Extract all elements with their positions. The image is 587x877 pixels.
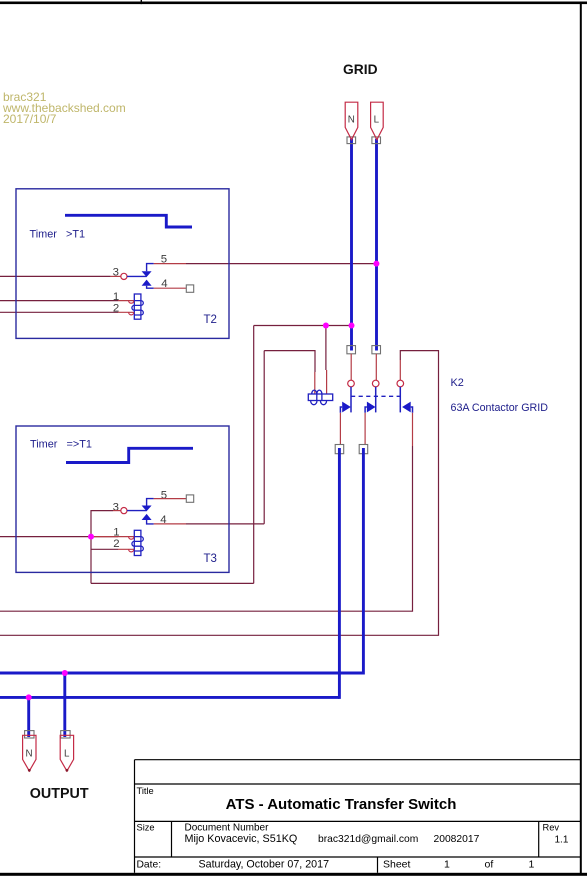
bus pole1 vertical: [338, 448, 341, 699]
T2 coil: [132, 294, 143, 319]
timer T3 box: [16, 426, 229, 572]
net vertical x264.2: [263, 351, 265, 524]
T3 pin2 stub: [118, 548, 134, 550]
net T2 pin2 from left edge: [0, 311, 118, 313]
net T3 pins 1-2 from left edge: [0, 536, 118, 538]
net T2 pin5 to GRID L: [186, 263, 376, 265]
T2 pin2 stub: [118, 311, 134, 313]
connector OUTPUT N tip dot: [28, 769, 31, 772]
connector OUTPUT N: [23, 735, 36, 771]
junction dot output N: [26, 694, 32, 700]
net T3 pin4 horizontal: [186, 523, 264, 525]
svg-text:N: N: [26, 748, 33, 759]
T2 waveform: [65, 215, 192, 227]
svg-text:1: 1: [113, 291, 119, 303]
T3 contact upper triangle: [142, 506, 152, 512]
svg-text:Size: Size: [137, 823, 155, 833]
bus pole2 vertical: [362, 448, 365, 675]
svg-text:Sheet: Sheet: [383, 858, 411, 870]
K2 pole1 pivot circle: [348, 380, 355, 387]
wire GRID N bus: [350, 139, 353, 351]
K2 pole2 bar: [375, 387, 377, 413]
svg-text:2: 2: [113, 538, 119, 550]
svg-text:1: 1: [444, 858, 450, 870]
net vertical x253.7: [253, 326, 255, 584]
T3 contact common circle: [121, 508, 127, 514]
T2 contact upper triangle: [142, 271, 152, 277]
svg-text:5: 5: [161, 489, 167, 501]
T3 contact common line: [127, 510, 147, 512]
T3 contact lower triangle: [142, 514, 152, 520]
K2 pole3 pivot circle: [397, 380, 404, 387]
T3 coil ring 1: [129, 537, 134, 540]
T3 pin5 terminal square: [186, 495, 193, 502]
svg-text:L: L: [374, 115, 380, 126]
connector GRID N pin square: [347, 137, 356, 144]
net T2 pin1 from left edge: [0, 300, 118, 302]
connector OUTPUT L tip dot: [66, 769, 69, 772]
bus output N horizontal: [0, 696, 339, 699]
connector GRID L: [371, 102, 384, 140]
T2 pin5 stub: [154, 263, 186, 265]
K2 pole1 top stub: [350, 354, 352, 380]
bus output L drop: [63, 673, 66, 737]
svg-text:63A Contactor GRID: 63A Contactor GRID: [451, 402, 549, 414]
title block outline: [135, 760, 581, 873]
junction dot T3 coil feed: [88, 534, 94, 540]
T2 contact lower arm: [147, 286, 154, 289]
svg-text:Saturday, October 07, 2017: Saturday, October 07, 2017: [199, 858, 330, 870]
svg-text:OUTPUT: OUTPUT: [30, 786, 89, 802]
net pole3 top loop: [0, 351, 439, 636]
net N bus tap horizontal: [254, 325, 352, 327]
T3 coil ring 2: [129, 549, 134, 552]
connector GRID N: [345, 102, 358, 140]
T2 contact common line: [127, 275, 147, 277]
svg-text:of: of: [485, 858, 494, 870]
T3 pin1 stub: [91, 536, 134, 538]
T2 contact common circle: [121, 273, 127, 279]
connector OUTPUT L pin square: [61, 731, 70, 738]
junction dot GRID N tap: [349, 323, 355, 329]
junction dot coil A2: [323, 323, 329, 329]
K2 pole2 top stub: [375, 354, 377, 380]
T3 pin4 stub: [154, 523, 186, 525]
svg-text:T3: T3: [204, 553, 217, 565]
T2 pin4 terminal square: [186, 285, 193, 292]
T3 contact lower arm: [147, 520, 154, 524]
K2 pole3 arrow: [411, 407, 413, 413]
svg-text:2017/10/7: 2017/10/7: [3, 112, 57, 126]
svg-text:1: 1: [529, 858, 535, 870]
K2 pole1 bottom stub: [339, 413, 341, 445]
T2 contact upper arm: [147, 264, 154, 272]
junction dot output L: [62, 670, 68, 676]
svg-text:Timer =>T1: Timer =>T1: [30, 439, 92, 451]
contactor K2 top pin square N: [347, 346, 356, 354]
sheet top border: [0, 2, 587, 5]
svg-text:Mijo Kovacevic, S51KQ: Mijo Kovacevic, S51KQ: [185, 833, 298, 845]
junction dot T2 pin5 / GRID L: [373, 261, 379, 267]
svg-text:Title: Title: [137, 786, 154, 796]
T2 pin3 stub: [111, 275, 121, 277]
net coil A2 drop: [325, 326, 327, 371]
net T2 pin3 from left edge: [0, 275, 111, 277]
svg-text:Rev: Rev: [543, 823, 560, 833]
net horizontal y583.4: [91, 582, 254, 584]
K2 bottom pin square pole1: [335, 445, 344, 454]
svg-text:L: L: [64, 748, 70, 759]
K2 pole2 bottom stub: [364, 413, 366, 445]
T3 contact upper arm: [147, 499, 154, 506]
T2 coil ring 1: [129, 301, 134, 304]
contactor K2 top pin square L: [372, 346, 381, 354]
net T3 pin3 corner: [91, 511, 113, 537]
svg-text:K2: K2: [451, 377, 464, 389]
svg-text:3: 3: [113, 502, 119, 514]
svg-text:T2: T2: [204, 314, 217, 326]
K2 coil: [308, 390, 332, 405]
T2 pin4 stub: [154, 287, 187, 289]
K2 pole2 arrow: [365, 407, 367, 413]
svg-text:1.1: 1.1: [555, 834, 569, 845]
K2 coil stub A1: [314, 372, 316, 394]
K2 pole1 bar: [350, 387, 352, 413]
connector OUTPUT N pin square: [25, 731, 34, 738]
T3 pin5 stub: [154, 498, 187, 500]
sheet right border: [580, 2, 582, 876]
K2 bottom pin square pole2: [359, 445, 368, 454]
K2 pole3 top stub: [399, 360, 401, 380]
T2 pin1 stub: [118, 300, 134, 302]
net coil A1 branch: [264, 351, 315, 372]
net T3 pin2 corner: [91, 548, 118, 550]
net pole3 bottom run: [0, 446, 413, 611]
timer T2 box: [16, 189, 229, 339]
svg-text:Timer >T1: Timer >T1: [30, 229, 86, 241]
svg-text:N: N: [348, 115, 355, 126]
connector GRID L pin square: [372, 137, 381, 144]
K2 pole3 bottom stub: [412, 413, 414, 446]
T3 waveform: [66, 448, 193, 462]
wire GRID L bus: [375, 139, 378, 351]
K2 pole3 bar: [399, 387, 401, 413]
bus output N drop: [27, 697, 30, 737]
K2 pole2 pivot circle: [372, 380, 379, 387]
svg-text:brac321d@gmail.com: brac321d@gmail.com: [318, 834, 418, 845]
net vertical x91 below T3 junction: [90, 537, 92, 584]
T3 pin3 stub: [113, 510, 121, 512]
K2 coil stub A2: [326, 370, 328, 394]
K2 linkage dashed line: [351, 395, 400, 397]
sheet bottom border: [0, 873, 587, 876]
K2 pole1 arrow: [340, 407, 342, 413]
svg-text:20082017: 20082017: [434, 834, 480, 845]
T3 coil: [132, 530, 143, 555]
T2 coil ring 2: [129, 312, 134, 315]
svg-text:GRID: GRID: [343, 62, 378, 77]
connector OUTPUT L: [60, 735, 73, 771]
bus output L horizontal: [0, 672, 363, 675]
T2 contact lower triangle: [142, 280, 152, 286]
svg-text:ATS - Automatic Transfer Switc: ATS - Automatic Transfer Switch: [226, 796, 457, 813]
svg-text:Date:: Date:: [137, 859, 162, 870]
border zone tick: [141, 0, 142, 4]
